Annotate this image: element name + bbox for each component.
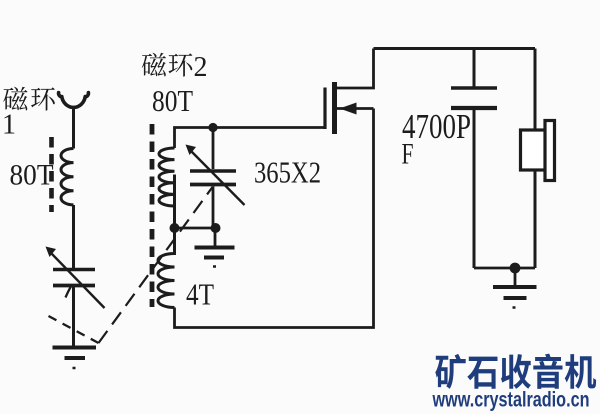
wire tank top (L2a top to gate) bbox=[175, 128, 324, 149]
wire bottom right bbox=[474, 267, 535, 270]
node top junction dot bbox=[208, 123, 217, 132]
wire right vertical (rail to ground) bbox=[534, 49, 537, 269]
transistor Q1 source lead with arrow bbox=[337, 103, 374, 115]
gang linkage dashed V left branch bbox=[49, 316, 99, 343]
svg-text:F: F bbox=[402, 138, 414, 171]
svg-text:365X2: 365X2 bbox=[254, 155, 321, 190]
svg-text:2: 2 bbox=[194, 52, 208, 83]
ferrite core dashed line (磁环2) bbox=[150, 124, 155, 307]
svg-text:www.crystalradio.cn: www.crystalradio.cn bbox=[432, 389, 590, 412]
capacitor C3 4700PF bbox=[451, 49, 497, 269]
svg-text:4T: 4T bbox=[186, 277, 214, 312]
ground (right) bbox=[493, 268, 537, 308]
node C2-ground junction dot bbox=[211, 223, 221, 233]
watermark 矿石收音机 bbox=[435, 354, 596, 389]
variable capacitor C2 365X2 bbox=[186, 128, 245, 229]
transistor Q1 drain lead bbox=[337, 49, 374, 89]
gang linkage dashed line to C2 bbox=[99, 187, 213, 343]
wire L2a bottom to tap bbox=[173, 206, 176, 228]
coil L2b 4T bbox=[158, 175, 175, 308]
ground (middle, under C2) bbox=[195, 228, 235, 267]
node bottom junction dot bbox=[510, 263, 521, 274]
svg-text:80T: 80T bbox=[10, 159, 54, 192]
wire L1 to C1 bbox=[72, 205, 75, 268]
speaker SP earphone box bbox=[521, 130, 547, 170]
label 磁环 1 (core 1) bbox=[2, 87, 55, 141]
transistor Q1 gate bar bbox=[323, 88, 326, 130]
coil L2a 80T bbox=[159, 148, 175, 206]
wire top rail bbox=[374, 47, 536, 50]
transistor Q1 channel bar bbox=[332, 82, 337, 134]
wire tank bottom to source riser bbox=[175, 109, 374, 328]
ferrite core dashed line (磁环1) bbox=[49, 137, 54, 212]
antenna ANT bbox=[59, 93, 89, 108]
coil L1 80T bbox=[61, 149, 74, 205]
variable capacitor C1 (365X2 section a) bbox=[46, 247, 105, 309]
svg-text:1: 1 bbox=[2, 110, 16, 141]
label 磁环2 (core 2) bbox=[142, 52, 208, 83]
wire antenna lead bbox=[72, 109, 75, 149]
gang linkage dash at C1 bbox=[66, 286, 72, 298]
wire C1 to ground bbox=[72, 287, 75, 347]
label 4700PF bbox=[402, 107, 472, 171]
speaker SP magnet bar bbox=[545, 121, 555, 181]
wire tap to C2 bottom bbox=[175, 227, 216, 230]
node tap junction dot bbox=[170, 223, 180, 233]
ground (left) bbox=[53, 348, 97, 369]
svg-text:80T: 80T bbox=[152, 83, 193, 118]
